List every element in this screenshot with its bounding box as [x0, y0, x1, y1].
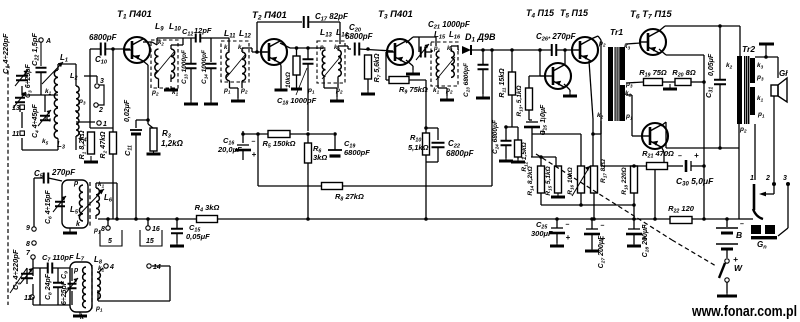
junction R7 top — [366, 47, 370, 51]
svg-text:R18 220Ω: R18 220Ω — [621, 167, 629, 195]
C15 stems — [176, 219, 178, 243]
R7 down — [367, 79, 369, 90]
ground under R3 — [147, 151, 161, 154]
AGC dashed link 2 — [672, 240, 716, 266]
svg-text:13: 13 — [12, 105, 20, 112]
svg-text:+: + — [566, 233, 571, 242]
battery to switch — [726, 249, 728, 258]
svg-text:C30 5,0μF: C30 5,0μF — [676, 176, 714, 188]
electrolytic C25b 1,0uF — [524, 104, 549, 136]
capacitor C17 82pF — [304, 16, 309, 28]
svg-text:0,05μF: 0,05μF — [708, 53, 715, 76]
junction C31 top — [718, 24, 722, 28]
C12 right — [200, 38, 211, 62]
T7 emitter wire — [661, 122, 739, 148]
junction Tr1 bottom — [591, 132, 595, 136]
ground C15 — [170, 243, 184, 246]
coil L7 — [83, 267, 86, 308]
svg-text:5: 5 — [108, 238, 112, 245]
terminal 16 — [146, 226, 160, 233]
L12 wires — [242, 48, 267, 88]
capacitor C10 — [101, 43, 106, 56]
ground L13 — [330, 97, 344, 101]
terminal 12 — [24, 295, 34, 302]
capacitor C15 — [171, 229, 183, 234]
junction C25 — [555, 217, 559, 221]
svg-text:R13* 5,1kΩ: R13* 5,1kΩ — [516, 85, 524, 116]
L9 bottom stub — [158, 79, 160, 88]
wire C5 left — [34, 178, 44, 227]
resistor R17 82Om — [591, 166, 598, 193]
svg-text:6800pF: 6800pF — [89, 33, 118, 42]
wire L4 to terminal 1 — [76, 121, 95, 123]
detector line — [472, 49, 551, 51]
ground C23 — [476, 94, 490, 98]
junction C16 — [241, 132, 245, 136]
terminal 11 — [12, 131, 24, 138]
T3 collector up — [406, 37, 419, 46]
wire C10 feed down — [90, 49, 113, 128]
svg-text:D1 Д9В: D1 Д9В — [465, 32, 496, 44]
wire R2 top — [112, 49, 114, 132]
junction R18 bus — [632, 217, 636, 221]
ground under T2 emitter — [275, 88, 288, 90]
R21 to C30 — [668, 165, 684, 167]
wire L9 top to C12 — [157, 38, 196, 45]
ground under R1 — [84, 156, 98, 162]
junction rail R16 — [579, 203, 583, 207]
wire L6 to bus — [95, 215, 97, 219]
svg-text:14: 14 — [153, 264, 161, 271]
wire switch to L2 — [84, 76, 97, 83]
wire R7b top — [296, 48, 298, 56]
oscillator coil L5 box — [62, 180, 88, 228]
svg-text:T1 П401: T1 П401 — [117, 9, 152, 21]
resistor R22 120 — [670, 217, 692, 224]
chassis bar top right — [759, 43, 774, 46]
wire L6 top right — [96, 183, 117, 219]
junction C24 top — [504, 125, 508, 129]
svg-text:R16 10kΩ: R16 10kΩ — [567, 167, 575, 195]
junction R14 node — [539, 155, 543, 159]
svg-text:+: + — [252, 150, 257, 159]
wire C5 right — [48, 178, 62, 181]
resistor R12 — [515, 140, 529, 172]
variable capacitor C2 — [20, 268, 33, 284]
resistor R11 15kOm — [499, 68, 516, 98]
L13 bottom — [324, 76, 337, 97]
jack Gn — [751, 225, 761, 234]
junction C11 bus — [134, 217, 138, 221]
terminal 9 — [26, 225, 36, 232]
C25b stems — [529, 120, 532, 157]
R20 right — [691, 81, 704, 83]
T7 base wire — [626, 95, 642, 136]
capacitor C22 — [36, 68, 47, 73]
R22 rail — [634, 218, 739, 220]
resistor R7 5,6kOm — [365, 53, 383, 82]
capacitor C12 — [196, 34, 201, 43]
trimmer capacitor C21 — [416, 44, 429, 60]
resistor R8 27kOm — [322, 183, 343, 190]
junction C30 — [702, 164, 706, 168]
coil L16 — [451, 51, 454, 77]
T2 collector to L13 — [280, 43, 325, 48]
band switch bracket — [97, 85, 104, 105]
svg-text:3kΩ: 3kΩ — [313, 153, 327, 162]
jack switch lever — [753, 184, 756, 210]
IF transformer IV box — [431, 42, 458, 86]
junction chassis — [764, 55, 768, 59]
transistor T5 — [572, 37, 598, 63]
capacitor C5 270pF — [44, 173, 49, 184]
ground C14 — [204, 100, 218, 104]
T4 collector to T5 base — [564, 50, 566, 64]
C9 stems — [71, 268, 73, 305]
Tr2 bottom — [739, 124, 753, 219]
ground under R7b — [291, 87, 302, 89]
resistor R16 10kOm — [567, 166, 585, 195]
transformer Tr1 — [608, 47, 625, 121]
speaker Gl — [771, 85, 778, 96]
Tr2 top feed — [739, 26, 741, 56]
T3 emitter — [406, 60, 413, 70]
ground R12 — [511, 159, 525, 162]
junction T1 emitter C11 — [146, 118, 150, 122]
C18 stems — [307, 48, 309, 131]
wire C10 to T1 base — [105, 48, 130, 50]
T6 base wire — [626, 43, 641, 44]
R12 wires — [506, 95, 518, 159]
svg-text:–: – — [566, 222, 570, 229]
ground under L5 — [63, 228, 77, 233]
svg-text:9: 9 — [26, 225, 30, 232]
capacitor C24 — [501, 141, 512, 146]
svg-text:T3 П401: T3 П401 — [378, 9, 413, 21]
R9 right — [409, 79, 426, 81]
capacitor C22b — [432, 143, 445, 148]
coupling dashes L7-L8 — [91, 265, 93, 310]
terminal 13 — [12, 105, 24, 112]
battery top stem — [726, 219, 728, 227]
capacitor C8 — [53, 283, 63, 288]
junction t16 — [146, 217, 150, 221]
transistor T1 — [124, 37, 150, 63]
ground T3 emitter — [406, 70, 420, 74]
coil L9 — [155, 49, 159, 79]
resistor R2 47kOm — [100, 131, 117, 158]
C14 stem — [210, 68, 212, 100]
L10 stubs — [171, 38, 183, 82]
electrolytic C30 5,0uF — [685, 160, 688, 172]
C19 stem — [334, 134, 336, 150]
svg-text:12: 12 — [24, 295, 32, 302]
contact 2 dot — [772, 182, 776, 186]
core arrow L15L16 — [436, 57, 455, 80]
terminal 8 — [26, 241, 36, 248]
node rail to R14 R15 — [531, 157, 556, 166]
svg-text:B: B — [736, 230, 742, 240]
svg-text:3: 3 — [783, 175, 787, 182]
T4 emitter — [564, 84, 570, 92]
connector block 5 — [100, 230, 122, 246]
svg-text:T2 П401: T2 П401 — [252, 10, 287, 22]
C30 right — [691, 165, 704, 167]
resistor R5 150kOm — [263, 131, 296, 150]
wire junction down to AGC rail — [257, 134, 259, 186]
AGC to detector — [491, 50, 493, 186]
C31 top stem — [719, 26, 721, 80]
terminal 8b — [101, 226, 110, 233]
ground C27 — [585, 249, 599, 251]
svg-text:16: 16 — [152, 226, 160, 233]
junction C31 bottom — [718, 146, 722, 150]
switch W — [725, 259, 729, 263]
connector block 15 — [140, 230, 162, 246]
svg-text:6800pF: 6800pF — [345, 32, 374, 41]
svg-text:1,2kΩ: 1,2kΩ — [161, 139, 184, 148]
svg-text:300μF: 300μF — [531, 229, 553, 238]
supply vertical x704 — [703, 55, 705, 219]
svg-text:–: – — [740, 221, 744, 228]
potentiometer arrow R16 — [572, 166, 590, 196]
coil L1 — [54, 70, 58, 107]
junction R20 — [702, 80, 706, 84]
svg-text:6800pF: 6800pF — [344, 148, 370, 157]
junction R10 C22 — [424, 126, 428, 130]
svg-text:p: p — [73, 180, 79, 187]
junction bus 308 — [306, 217, 310, 221]
Tr1 primary bottom — [593, 121, 601, 134]
IF transformer I box — [151, 40, 178, 88]
coil L8 — [97, 272, 100, 299]
svg-text:8: 8 — [101, 226, 105, 233]
ground under W — [717, 293, 737, 296]
antenna terminal A — [39, 38, 51, 45]
resistor R10 5,1kOm — [423, 133, 430, 155]
resistor R20 8Om — [675, 79, 691, 86]
junction L6 bus — [115, 217, 119, 221]
electrolytic C16 20,0uF — [235, 139, 257, 160]
junction T2 collector R — [295, 46, 299, 50]
junction R18 top — [632, 164, 636, 168]
coil L6 — [96, 188, 99, 215]
transistor T6 — [640, 29, 666, 55]
transistor T4 — [545, 63, 571, 89]
svg-text:Tr1: Tr1 — [610, 27, 623, 37]
svg-text:–: – — [601, 223, 605, 230]
L14 wires — [338, 46, 351, 88]
C28 stems — [633, 234, 635, 244]
svg-text:8: 8 — [26, 241, 30, 248]
junction T5 base — [563, 48, 567, 52]
contact 2 wire — [762, 184, 774, 194]
terminal 3 — [95, 78, 104, 88]
capacitor C7 110pF — [48, 263, 53, 274]
contact 3 dot — [786, 182, 790, 186]
C13 stems — [190, 38, 192, 100]
junction t8 — [106, 217, 110, 221]
dashed ferrite-antenna boundary left — [7, 64, 9, 305]
transformer Tr2 — [737, 56, 755, 124]
junction diode line agc — [490, 48, 494, 52]
capacitor C14 — [206, 64, 217, 69]
transistor T3 — [387, 39, 413, 65]
ground C24 — [499, 158, 513, 161]
svg-text:5,1kΩ: 5,1kΩ — [408, 143, 429, 152]
Tr2 secondary to jack — [754, 124, 756, 180]
coil L10 — [171, 49, 175, 79]
osc LW wires — [27, 259, 70, 305]
T2 emitter down — [280, 62, 281, 88]
coil L14 — [338, 50, 341, 76]
transistor T2 — [261, 39, 287, 65]
C18 join bias rail — [307, 133, 333, 135]
resistor R13 5,1kOm — [516, 85, 533, 116]
R11 wires — [511, 50, 513, 72]
L11 bottom — [230, 81, 239, 98]
main supply bus — [98, 218, 636, 220]
gang arrow C2 — [10, 268, 27, 293]
L8 loop wires — [98, 266, 170, 301]
wire to C11 — [136, 120, 148, 128]
transistor T7 — [642, 123, 668, 149]
wire C1 to coil — [21, 86, 23, 95]
junction R6 top — [306, 132, 310, 136]
terminal 4 — [104, 264, 114, 271]
C27 stems — [591, 219, 593, 249]
C25 stems — [556, 219, 558, 243]
junction C15 — [175, 217, 179, 221]
junction T7 bus — [653, 217, 657, 221]
C8 stems — [57, 268, 59, 305]
R17 stems — [593, 193, 595, 219]
C26 right to T5 — [556, 49, 564, 51]
terminal 14 — [147, 264, 161, 271]
C22 bottom — [426, 147, 438, 162]
trimmer capacitor C9 — [65, 278, 78, 294]
ground C13 — [184, 100, 198, 104]
svg-text:0,05μF: 0,05μF — [186, 232, 210, 241]
T1 emitter down — [143, 61, 153, 128]
svg-text:Tr2: Tr2 — [742, 44, 755, 54]
coil L15 — [436, 51, 439, 77]
resistor R15 5,1kOm — [545, 166, 562, 196]
capacitor C19 — [328, 149, 342, 151]
junction R18 rail — [632, 203, 636, 207]
antenna arrow — [40, 42, 42, 66]
junction C23 — [481, 48, 485, 52]
wire into C10 — [90, 48, 101, 50]
junction T2 collector C18 — [306, 46, 310, 50]
ground L15L16 — [440, 96, 454, 100]
battery B — [716, 227, 738, 229]
T5 emitter diagonal — [589, 61, 593, 166]
svg-text:www.fonar.com.pl: www.fonar.com.pl — [691, 304, 797, 320]
ground T4 — [563, 92, 577, 96]
wires terminals to bus — [108, 219, 148, 226]
coil L12 — [242, 52, 246, 81]
junction battery — [725, 217, 729, 221]
svg-text:11: 11 — [12, 131, 19, 138]
junction T2 base — [255, 50, 259, 54]
svg-text:k2: k2 — [158, 40, 164, 47]
capacitor C20 — [355, 43, 360, 56]
ground R7 — [361, 90, 375, 94]
T6 collector — [659, 26, 740, 31]
resistor R7b 10k under T2 — [285, 56, 300, 88]
leader line C18 — [296, 68, 307, 95]
R19 left — [626, 82, 644, 83]
electrolytic C28 200uF — [626, 223, 651, 258]
terminal 7 — [26, 250, 35, 259]
junction bus 427 — [424, 217, 428, 221]
ground L10 — [164, 86, 178, 90]
svg-text:W: W — [734, 263, 743, 273]
R6 bottom — [307, 163, 309, 219]
svg-text:Gł: Gł — [779, 69, 788, 78]
switch to ground — [726, 282, 728, 293]
trimmer capacitor C6 — [53, 196, 66, 212]
capacitor C11 — [130, 129, 142, 131]
T5 collector to Tr1 — [591, 36, 601, 121]
coil L2 — [76, 86, 79, 112]
svg-text:20,0μF: 20,0μF — [217, 145, 242, 154]
svg-text:4: 4 — [109, 264, 114, 271]
capacitor C31 — [714, 80, 726, 85]
coil L3 — [54, 108, 58, 138]
L11 top feed — [211, 38, 229, 52]
adjust arrow through L1 — [42, 62, 63, 84]
svg-text:–: – — [678, 153, 682, 160]
trimmer capacitor C4 — [38, 110, 51, 126]
C11 to bus — [135, 134, 137, 219]
node rail to R16 — [532, 134, 581, 166]
electrolytic C25 300uF — [549, 222, 571, 243]
capacitor C18 — [303, 59, 314, 64]
terminal 2 — [94, 103, 103, 114]
R18 stems — [633, 193, 635, 229]
ground L11 — [231, 98, 245, 101]
oscillator coil L7 box — [70, 262, 92, 312]
R16 bottom — [580, 193, 582, 205]
output stage to bus — [654, 170, 656, 219]
ground under L7 — [73, 312, 87, 316]
core arrow L13L14 — [322, 56, 341, 79]
ground C28 — [627, 244, 641, 246]
AGC dashed link — [536, 154, 672, 240]
resistor R19 75Om — [644, 79, 663, 86]
R13 wires — [529, 76, 545, 120]
svg-text:+: + — [694, 151, 699, 160]
junction C19 top — [333, 132, 337, 136]
core arrow L5 L6 — [78, 189, 104, 216]
R10 wires — [425, 80, 427, 219]
AGC rail — [258, 185, 492, 187]
svg-text:0,02μF: 0,02μF — [124, 99, 131, 122]
feedback wire to C17 — [257, 22, 302, 52]
resistor R1 8,2kOm — [79, 130, 95, 159]
wire R2 to bus — [112, 154, 114, 219]
speaker wires — [755, 57, 778, 182]
capacitor C13 — [186, 64, 197, 69]
svg-text:R15 5,1kΩ: R15 5,1kΩ — [545, 166, 553, 195]
R19-R20 tie — [663, 81, 676, 83]
svg-text:2: 2 — [98, 107, 103, 114]
ground C25 — [550, 243, 564, 246]
R6 wires — [307, 134, 309, 143]
svg-text:T4 П15: T4 П15 — [526, 8, 555, 20]
